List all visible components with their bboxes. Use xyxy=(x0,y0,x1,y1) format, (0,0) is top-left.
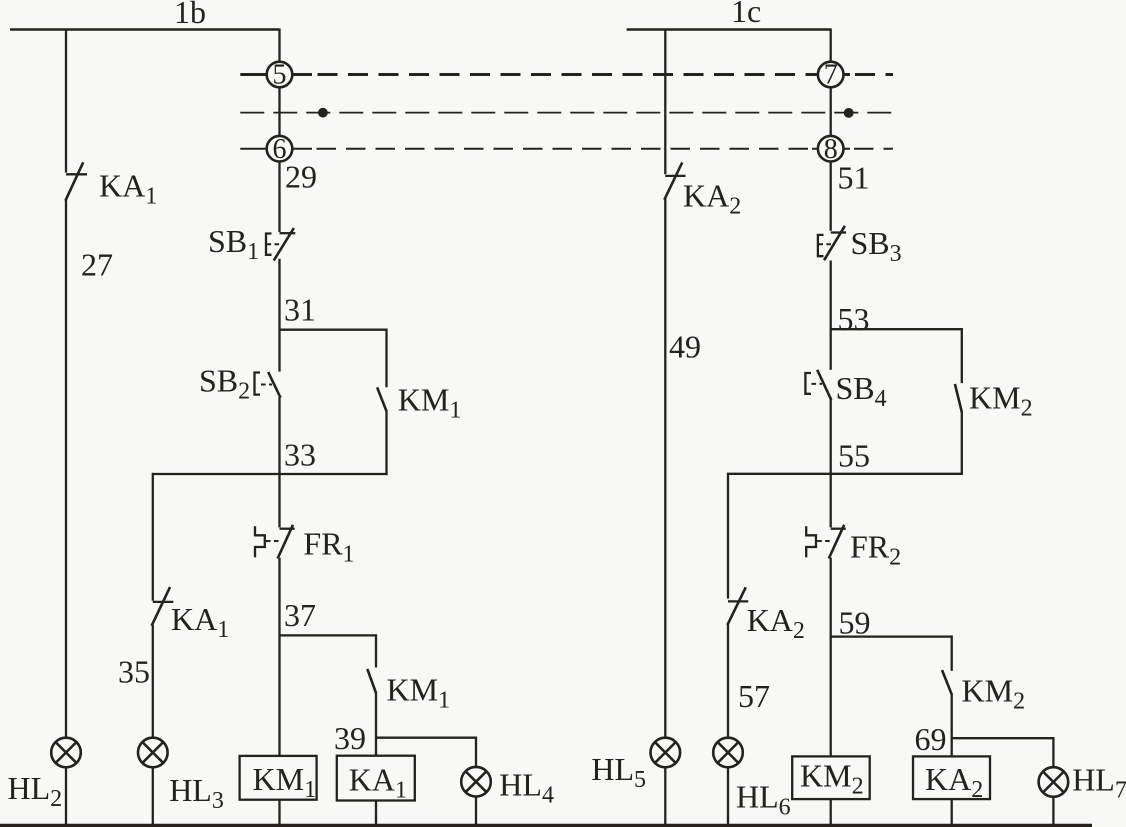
svg-text:37: 37 xyxy=(284,597,316,633)
svg-text:57: 57 xyxy=(738,678,770,714)
wire KA1 coil branch xyxy=(375,693,377,756)
node 37 label xyxy=(284,597,316,633)
terminal 6 xyxy=(267,134,293,165)
svg-text:31: 31 xyxy=(284,292,316,328)
wire branch HL5 lower xyxy=(664,768,666,826)
wire HL6 to bus xyxy=(727,768,729,826)
node 55 label xyxy=(838,438,870,474)
wire below KA2 coil xyxy=(951,799,953,826)
pushbutton SB4 (NO start button) xyxy=(805,370,831,400)
lamp HL4 xyxy=(461,767,491,797)
coil KA2 xyxy=(913,756,990,803)
label KA2 lamp branch xyxy=(747,602,805,644)
wire seal-in branch lower xyxy=(385,411,387,475)
label SB4 xyxy=(836,370,887,412)
svg-text:KM1: KM1 xyxy=(253,761,317,803)
svg-text:59: 59 xyxy=(839,605,871,641)
dashed control line 2 xyxy=(240,112,892,114)
label HL4 xyxy=(499,766,554,808)
node 51 label xyxy=(838,159,870,195)
wire HL3 branch lower xyxy=(152,625,154,737)
svg-text:KM1: KM1 xyxy=(398,382,462,424)
node 69 label xyxy=(915,721,947,757)
svg-text:KM1: KM1 xyxy=(387,672,451,714)
svg-text:5: 5 xyxy=(273,60,287,91)
svg-text:HL7: HL7 xyxy=(1072,762,1126,804)
lamp HL5 xyxy=(651,738,681,768)
node 59 label xyxy=(839,605,871,641)
label HL3 xyxy=(169,772,224,814)
wire node 31 branch xyxy=(280,329,387,388)
label FR1 xyxy=(303,526,354,568)
node 31 label xyxy=(284,292,316,328)
coil KM1 xyxy=(240,756,317,803)
label KM2 seal-in xyxy=(969,380,1033,422)
label FR2 xyxy=(850,529,901,571)
svg-text:HL2: HL2 xyxy=(8,770,63,812)
wire branch HL2 lower xyxy=(65,768,67,826)
contact KA1 (NC relay contact, upper left) xyxy=(65,162,87,200)
label KM1 seal-in xyxy=(398,382,462,424)
wire main between SB4 and FR2 xyxy=(830,399,832,528)
wire top bus 1c xyxy=(627,28,831,31)
label 1b xyxy=(174,0,206,30)
svg-text:SB2: SB2 xyxy=(199,363,250,405)
lamp HL6 xyxy=(713,738,743,768)
svg-text:KA2: KA2 xyxy=(683,178,741,220)
contact KM1 (NO lamp contact) xyxy=(367,669,376,694)
wire top bus 1b xyxy=(10,28,280,31)
wire KA2 coil branch xyxy=(951,694,953,756)
wire node 39 branch to HL4 xyxy=(376,737,476,767)
dashed control line 3 xyxy=(240,148,893,150)
svg-text:1b: 1b xyxy=(174,0,206,30)
svg-text:HL6: HL6 xyxy=(736,779,791,821)
terminal 5 xyxy=(267,60,293,91)
wire branch HL2 middle xyxy=(65,199,67,737)
wire main right column top xyxy=(830,29,832,231)
node 33 label xyxy=(284,437,316,473)
wire node 55 branch xyxy=(728,473,962,599)
wire HL4 to bus xyxy=(475,797,477,826)
contact KA1 (NC, lamp branch) xyxy=(152,587,174,626)
wire node 53 branch xyxy=(831,328,962,383)
wire seal-in branch lower right xyxy=(961,412,963,475)
wire main between SB2 and FR1 xyxy=(278,397,280,527)
node 49 label xyxy=(669,329,701,365)
svg-text:SB1: SB1 xyxy=(208,223,259,265)
label KM1 lamp contact xyxy=(387,672,451,714)
svg-text:KM2: KM2 xyxy=(969,380,1033,422)
svg-text:FR2: FR2 xyxy=(850,529,901,571)
lamp HL7 xyxy=(1039,767,1069,797)
svg-text:49: 49 xyxy=(669,329,701,365)
label KA1 xyxy=(99,167,157,209)
wire HL7 to bus xyxy=(1052,798,1054,826)
svg-text:SB3: SB3 xyxy=(851,225,902,267)
wire bottom bus xyxy=(0,824,1092,827)
label KM2 lamp contact xyxy=(962,673,1026,715)
node 57 label xyxy=(738,678,770,714)
svg-text:KA1: KA1 xyxy=(99,167,157,209)
lamp HL2 xyxy=(51,738,81,768)
wire main left column top xyxy=(278,29,280,233)
wire branch HL2 upper xyxy=(65,29,67,173)
svg-text:HL4: HL4 xyxy=(499,766,554,808)
pushbutton SB3 (NC stop button) xyxy=(818,226,846,260)
svg-text:SB4: SB4 xyxy=(836,370,887,412)
thermal contact FR1 (NC overload) xyxy=(255,525,295,559)
coil KM2 xyxy=(792,756,870,799)
svg-text:KA1: KA1 xyxy=(349,761,407,803)
node 39 label xyxy=(334,720,366,756)
wire below KM2 coil xyxy=(830,799,832,826)
node 35 label xyxy=(118,654,150,690)
svg-text:FR1: FR1 xyxy=(303,526,354,568)
label KA1 lamp branch xyxy=(171,601,229,643)
svg-text:8: 8 xyxy=(824,134,838,165)
label SB1 xyxy=(208,223,259,265)
contact KA2 (NC relay contact, upper right) xyxy=(664,163,685,200)
wire HL3 to bus xyxy=(152,768,154,826)
wire node 33 branch xyxy=(153,473,387,601)
node 29 label xyxy=(285,159,317,195)
svg-text:KM2: KM2 xyxy=(962,673,1026,715)
junction dot left on line 2 xyxy=(318,108,328,118)
contact KM2 (NO lamp contact) xyxy=(942,670,952,695)
svg-text:KA2: KA2 xyxy=(925,761,983,803)
terminal 7 xyxy=(818,60,844,91)
wire HL6 branch lower xyxy=(727,624,729,737)
pushbutton SB1 (NC stop button) xyxy=(266,228,295,260)
wire main between SB1 and SB2 xyxy=(278,259,280,372)
svg-text:KA1: KA1 xyxy=(171,601,229,643)
wire main between SB3 and SB4 xyxy=(830,261,832,370)
label KA2 xyxy=(683,178,741,220)
svg-text:HL5: HL5 xyxy=(591,751,646,793)
svg-text:7: 7 xyxy=(824,60,838,91)
wire below KA1 coil xyxy=(375,801,377,827)
svg-text:51: 51 xyxy=(838,159,870,195)
wire branch HL5 middle xyxy=(664,199,666,737)
contact KM1 (NO seal-in contact) xyxy=(377,387,387,411)
label HL2 xyxy=(8,770,63,812)
wire node 59 branch xyxy=(831,635,952,671)
junction dot right on line 2 xyxy=(844,108,854,118)
svg-text:55: 55 xyxy=(838,438,870,474)
svg-text:1c: 1c xyxy=(731,0,761,29)
contact KA2 (NC, lamp branch) xyxy=(727,587,748,625)
svg-text:53: 53 xyxy=(838,301,870,337)
node 53 label xyxy=(838,301,870,337)
svg-text:KM2: KM2 xyxy=(800,758,864,800)
label HL7 xyxy=(1072,762,1126,804)
wire node 37 branch xyxy=(280,634,377,667)
label SB2 xyxy=(199,363,250,405)
wire main between FR2 and coil xyxy=(830,558,832,757)
svg-text:69: 69 xyxy=(915,721,947,757)
svg-text:HL3: HL3 xyxy=(169,772,224,814)
label HL5 xyxy=(591,751,646,793)
wire node 69 branch to HL7 xyxy=(952,737,1054,766)
thermal contact FR2 (NC overload) xyxy=(806,525,846,559)
svg-text:KA2: KA2 xyxy=(747,602,805,644)
svg-text:39: 39 xyxy=(334,720,366,756)
terminal 8 xyxy=(818,134,844,165)
label 1c xyxy=(731,0,761,29)
node 27 label xyxy=(81,246,113,282)
dashed control line 1 xyxy=(240,73,893,76)
lamp HL3 xyxy=(138,738,168,768)
svg-text:33: 33 xyxy=(284,437,316,473)
contact KM2 (NO seal-in contact) xyxy=(955,384,962,413)
svg-text:35: 35 xyxy=(118,654,150,690)
svg-text:27: 27 xyxy=(81,246,113,282)
coil KA1 xyxy=(337,756,415,804)
label SB3 xyxy=(851,225,902,267)
wire branch HL5 upper xyxy=(664,29,666,175)
pushbutton SB2 (NO start button) xyxy=(255,372,281,398)
label HL6 xyxy=(736,779,791,821)
svg-text:29: 29 xyxy=(285,159,317,195)
wire main between FR1 and coil xyxy=(278,558,280,756)
wire below KM1 coil xyxy=(278,800,280,826)
